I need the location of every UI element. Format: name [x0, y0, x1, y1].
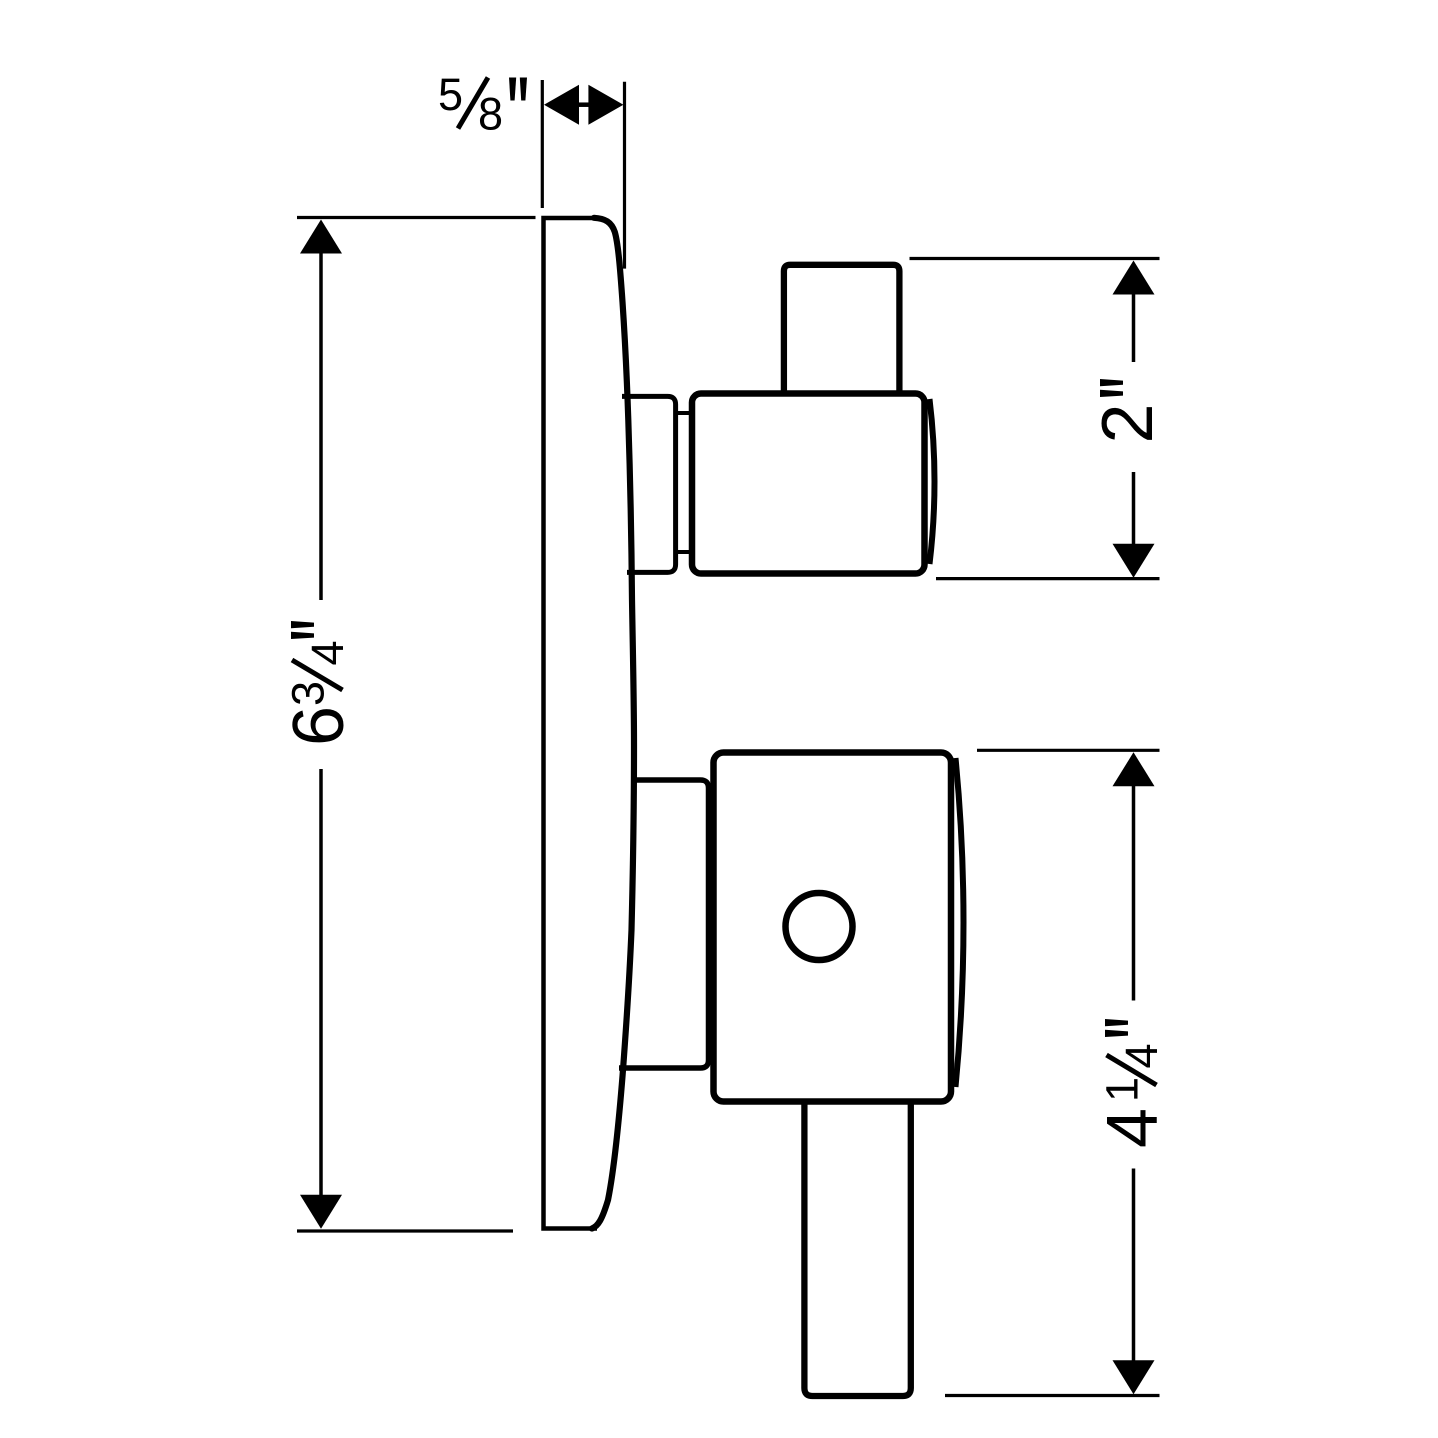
svg-text:4: 4 — [302, 640, 353, 665]
svg-text:2: 2 — [1088, 403, 1168, 443]
svg-text:3: 3 — [283, 681, 334, 706]
svg-text:6: 6 — [279, 706, 359, 746]
svg-text:4: 4 — [1093, 1108, 1173, 1148]
svg-text:8: 8 — [478, 89, 503, 140]
svg-text:4: 4 — [1116, 1043, 1167, 1068]
svg-text:5: 5 — [438, 69, 463, 120]
svg-text:1: 1 — [1097, 1077, 1148, 1102]
